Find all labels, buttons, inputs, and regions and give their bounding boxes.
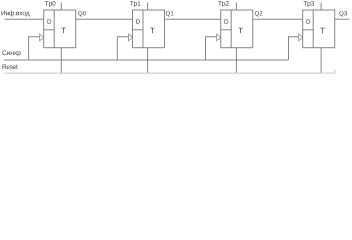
function label T (Тр1) (150, 28, 155, 34)
wire: Q0 to D of Тр1 (76, 18, 133, 20)
label: Инф.вход (data input) (2, 11, 30, 17)
label Тр2 (218, 1, 229, 7)
wire: reset bus (4, 70, 335, 73)
label Q3 (339, 11, 347, 17)
wire: Q2 to D of Тр3 (253, 18, 303, 20)
wire: reset stub Тр0 (60, 48, 62, 73)
pin label D (Тр0) (48, 19, 52, 23)
function label T (Тр0) (61, 28, 66, 34)
wire: reset stub Тр1 (147, 48, 149, 73)
wire: clock riser and line Тр0 (29, 37, 40, 60)
label Тр0 (45, 1, 56, 7)
pin label D (Тр2) (225, 19, 229, 23)
label: Reset (3, 65, 18, 70)
wire: top stub Тр2 (235, 3, 237, 11)
label Q1 (166, 11, 174, 17)
function label T (Тр2) (238, 28, 243, 34)
pin label D (Тр3) (307, 19, 311, 23)
wire: top stub Тр0 (60, 3, 62, 11)
label Тр1 (130, 1, 141, 7)
label Q2 (255, 11, 263, 17)
wire: reset stub Тр3 (320, 48, 322, 73)
flip-flop Тр1 box (133, 10, 165, 48)
wire: clock riser and line Тр1 (117, 37, 129, 60)
flip-flop Тр3 box (303, 10, 335, 48)
wire: clock riser and line Тр2 (206, 37, 218, 60)
wire: Q3 output (335, 18, 350, 20)
wire: reset stub Тр2 (235, 48, 237, 73)
label Тр3 (303, 1, 314, 7)
wire: top stub Тр1 (147, 3, 149, 11)
wire: top stub Тр3 (320, 3, 322, 11)
wire: clock riser and line Тр3 (289, 37, 300, 60)
label: Синхр (clock) (2, 50, 20, 56)
clock triangle Тр3 (299, 34, 303, 41)
clock triangle Тр1 (129, 34, 133, 41)
flip-flop Тр2 box (221, 10, 253, 48)
wire: data input to D of Тр0 (5, 18, 44, 20)
function label T (Тр3) (320, 28, 325, 34)
wire: Q1 to D of Тр2 (165, 18, 221, 20)
pin label D (Тр1) (136, 19, 140, 23)
label Q0 (78, 11, 86, 17)
flip-flop Тр0 box (44, 10, 76, 48)
clock triangle Тр0 (40, 34, 44, 41)
wire: sync bus (4, 59, 289, 61)
clock triangle Тр2 (217, 34, 221, 41)
